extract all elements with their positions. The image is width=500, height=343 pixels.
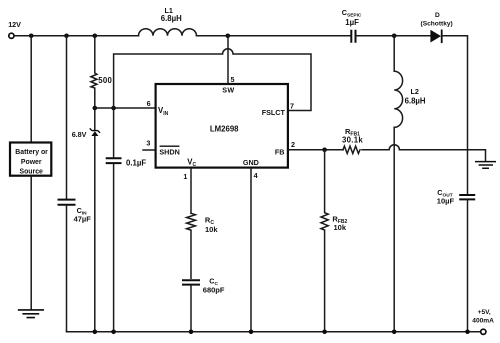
capacitor COUT	[437, 188, 475, 331]
svg-text:10µF: 10µF	[437, 196, 455, 205]
capacitor 0.1uF	[106, 108, 147, 331]
pin 4 GND wire	[250, 169, 252, 331]
wire VIN row	[95, 107, 155, 109]
op-amp U1 LM2698 box	[156, 84, 288, 168]
wire L2 bottom down to output rail	[393, 127, 395, 331]
node rail L2	[392, 330, 397, 335]
svg-text:D: D	[435, 12, 440, 19]
svg-text:6.8V: 6.8V	[72, 130, 87, 139]
wire top rail mid	[197, 35, 351, 37]
svg-text:47µF: 47µF	[74, 215, 92, 224]
battery wire bottom	[30, 176, 32, 309]
capacitor CSEPIC	[342, 8, 362, 43]
battery box	[10, 143, 51, 176]
node rail GND pin	[249, 330, 254, 335]
svg-text:3: 3	[146, 139, 150, 148]
wire FSLCT link: up from VIN node, over SW wire, down to FSLCT	[114, 49, 311, 111]
node CIN	[64, 34, 69, 39]
node battery	[29, 34, 34, 39]
node rail RFB2	[322, 330, 327, 335]
capacitor CIN	[58, 36, 92, 331]
node zener top	[93, 106, 98, 111]
node rail COUT	[465, 330, 470, 335]
svg-text:400mA: 400mA	[472, 318, 494, 325]
resistor RFB2	[321, 150, 347, 331]
svg-text:L2: L2	[411, 87, 419, 96]
svg-text:GND: GND	[243, 158, 259, 167]
resistor RC	[187, 213, 219, 278]
resistor RFB1	[342, 127, 363, 154]
svg-text:10k: 10k	[334, 223, 347, 232]
wire output bottom rail	[67, 330, 481, 333]
node rail CC	[189, 330, 194, 335]
node 500ohm	[93, 34, 98, 39]
ground (battery)	[18, 310, 44, 318]
svg-text:500: 500	[98, 76, 112, 85]
svg-text:SHDN: SHDN	[159, 147, 179, 156]
svg-text:1µF: 1µF	[345, 18, 359, 27]
svg-text:2: 2	[291, 140, 295, 149]
svg-text:0.1µF: 0.1µF	[126, 158, 146, 167]
ground (right)	[475, 162, 496, 169]
svg-text:6.8µH: 6.8µH	[405, 97, 426, 106]
svg-text:30.1k: 30.1k	[342, 136, 363, 145]
zener diode 6.8V	[72, 108, 100, 331]
node 0.1uF top	[111, 106, 116, 111]
capacitor CC	[182, 277, 225, 332]
svg-text:12V: 12V	[8, 20, 21, 29]
svg-text:Power: Power	[21, 159, 42, 166]
12V input terminal	[8, 20, 21, 38]
inductor L2	[394, 36, 426, 128]
svg-text:4: 4	[254, 171, 258, 180]
battery wire top	[30, 36, 32, 142]
wire top rail left	[15, 35, 139, 37]
svg-text:SW: SW	[222, 86, 234, 95]
inductor L1	[139, 6, 197, 36]
pin 3 SHDN stub	[143, 149, 155, 151]
svg-text:FSLCT: FSLCT	[262, 108, 286, 117]
svg-text:10k: 10k	[205, 225, 218, 234]
svg-text:FB: FB	[275, 147, 285, 156]
svg-text:1: 1	[183, 172, 187, 181]
svg-text:680pF: 680pF	[203, 286, 225, 295]
node L2 top	[392, 34, 397, 39]
output terminal +5V 400mA	[472, 309, 494, 334]
svg-text:5: 5	[231, 75, 235, 84]
svg-text:6.8µH: 6.8µH	[161, 14, 182, 23]
node RFB2	[322, 148, 327, 153]
pin 5 SW wire	[227, 36, 229, 83]
svg-text:Battery or: Battery or	[15, 149, 48, 156]
svg-text:+5V,: +5V,	[478, 309, 491, 316]
pin 1 VC wire	[190, 169, 192, 214]
svg-text:7: 7	[290, 102, 294, 111]
node rail 0.1uF	[111, 330, 116, 335]
svg-text:Source: Source	[20, 169, 44, 176]
FB row wire with hop over L2 wire	[289, 145, 486, 161]
resistor 500	[91, 36, 113, 108]
wire top rail right of CSEPIC	[357, 35, 431, 37]
svg-text:LM2698: LM2698	[210, 124, 239, 133]
node rail zener	[93, 330, 98, 335]
node SW	[226, 34, 231, 39]
diode D (Schottky)	[421, 12, 453, 43]
wire diode to right corner and down to COUT	[443, 36, 468, 194]
svg-text:(Schottky): (Schottky)	[421, 21, 453, 28]
svg-text:6: 6	[147, 99, 151, 108]
